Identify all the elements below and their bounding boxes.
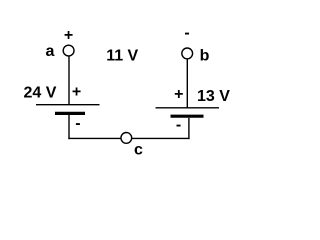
wire b to battery V2 bbox=[186, 59, 188, 108]
battery V2 positive plate bbox=[156, 107, 220, 109]
svg-text:c: c bbox=[134, 142, 143, 159]
svg-text:b: b bbox=[200, 48, 210, 65]
svg-text:11 V: 11 V bbox=[106, 47, 138, 64]
node b bbox=[182, 48, 193, 59]
battery V2 negative plate bbox=[171, 115, 204, 118]
node c bbox=[121, 133, 132, 144]
wire bottom left bbox=[68, 137, 121, 139]
svg-text:+: + bbox=[64, 27, 73, 44]
svg-text:-: - bbox=[184, 25, 189, 42]
battery V1 negative plate bbox=[55, 112, 85, 115]
wire a to battery V1 bbox=[68, 57, 70, 105]
svg-text:24 V: 24 V bbox=[24, 85, 57, 102]
svg-text:-: - bbox=[176, 117, 181, 134]
wire bottom right bbox=[132, 137, 190, 139]
svg-text:13 V: 13 V bbox=[197, 88, 230, 105]
svg-text:a: a bbox=[46, 43, 55, 60]
svg-text:-: - bbox=[75, 115, 80, 132]
wire battery V1 to bottom bbox=[68, 115, 70, 139]
svg-text:+: + bbox=[174, 86, 183, 103]
node a bbox=[63, 45, 74, 56]
battery V1 positive plate bbox=[36, 104, 100, 106]
svg-text:+: + bbox=[72, 84, 81, 101]
wire bottom to battery V2 bbox=[188, 118, 190, 139]
